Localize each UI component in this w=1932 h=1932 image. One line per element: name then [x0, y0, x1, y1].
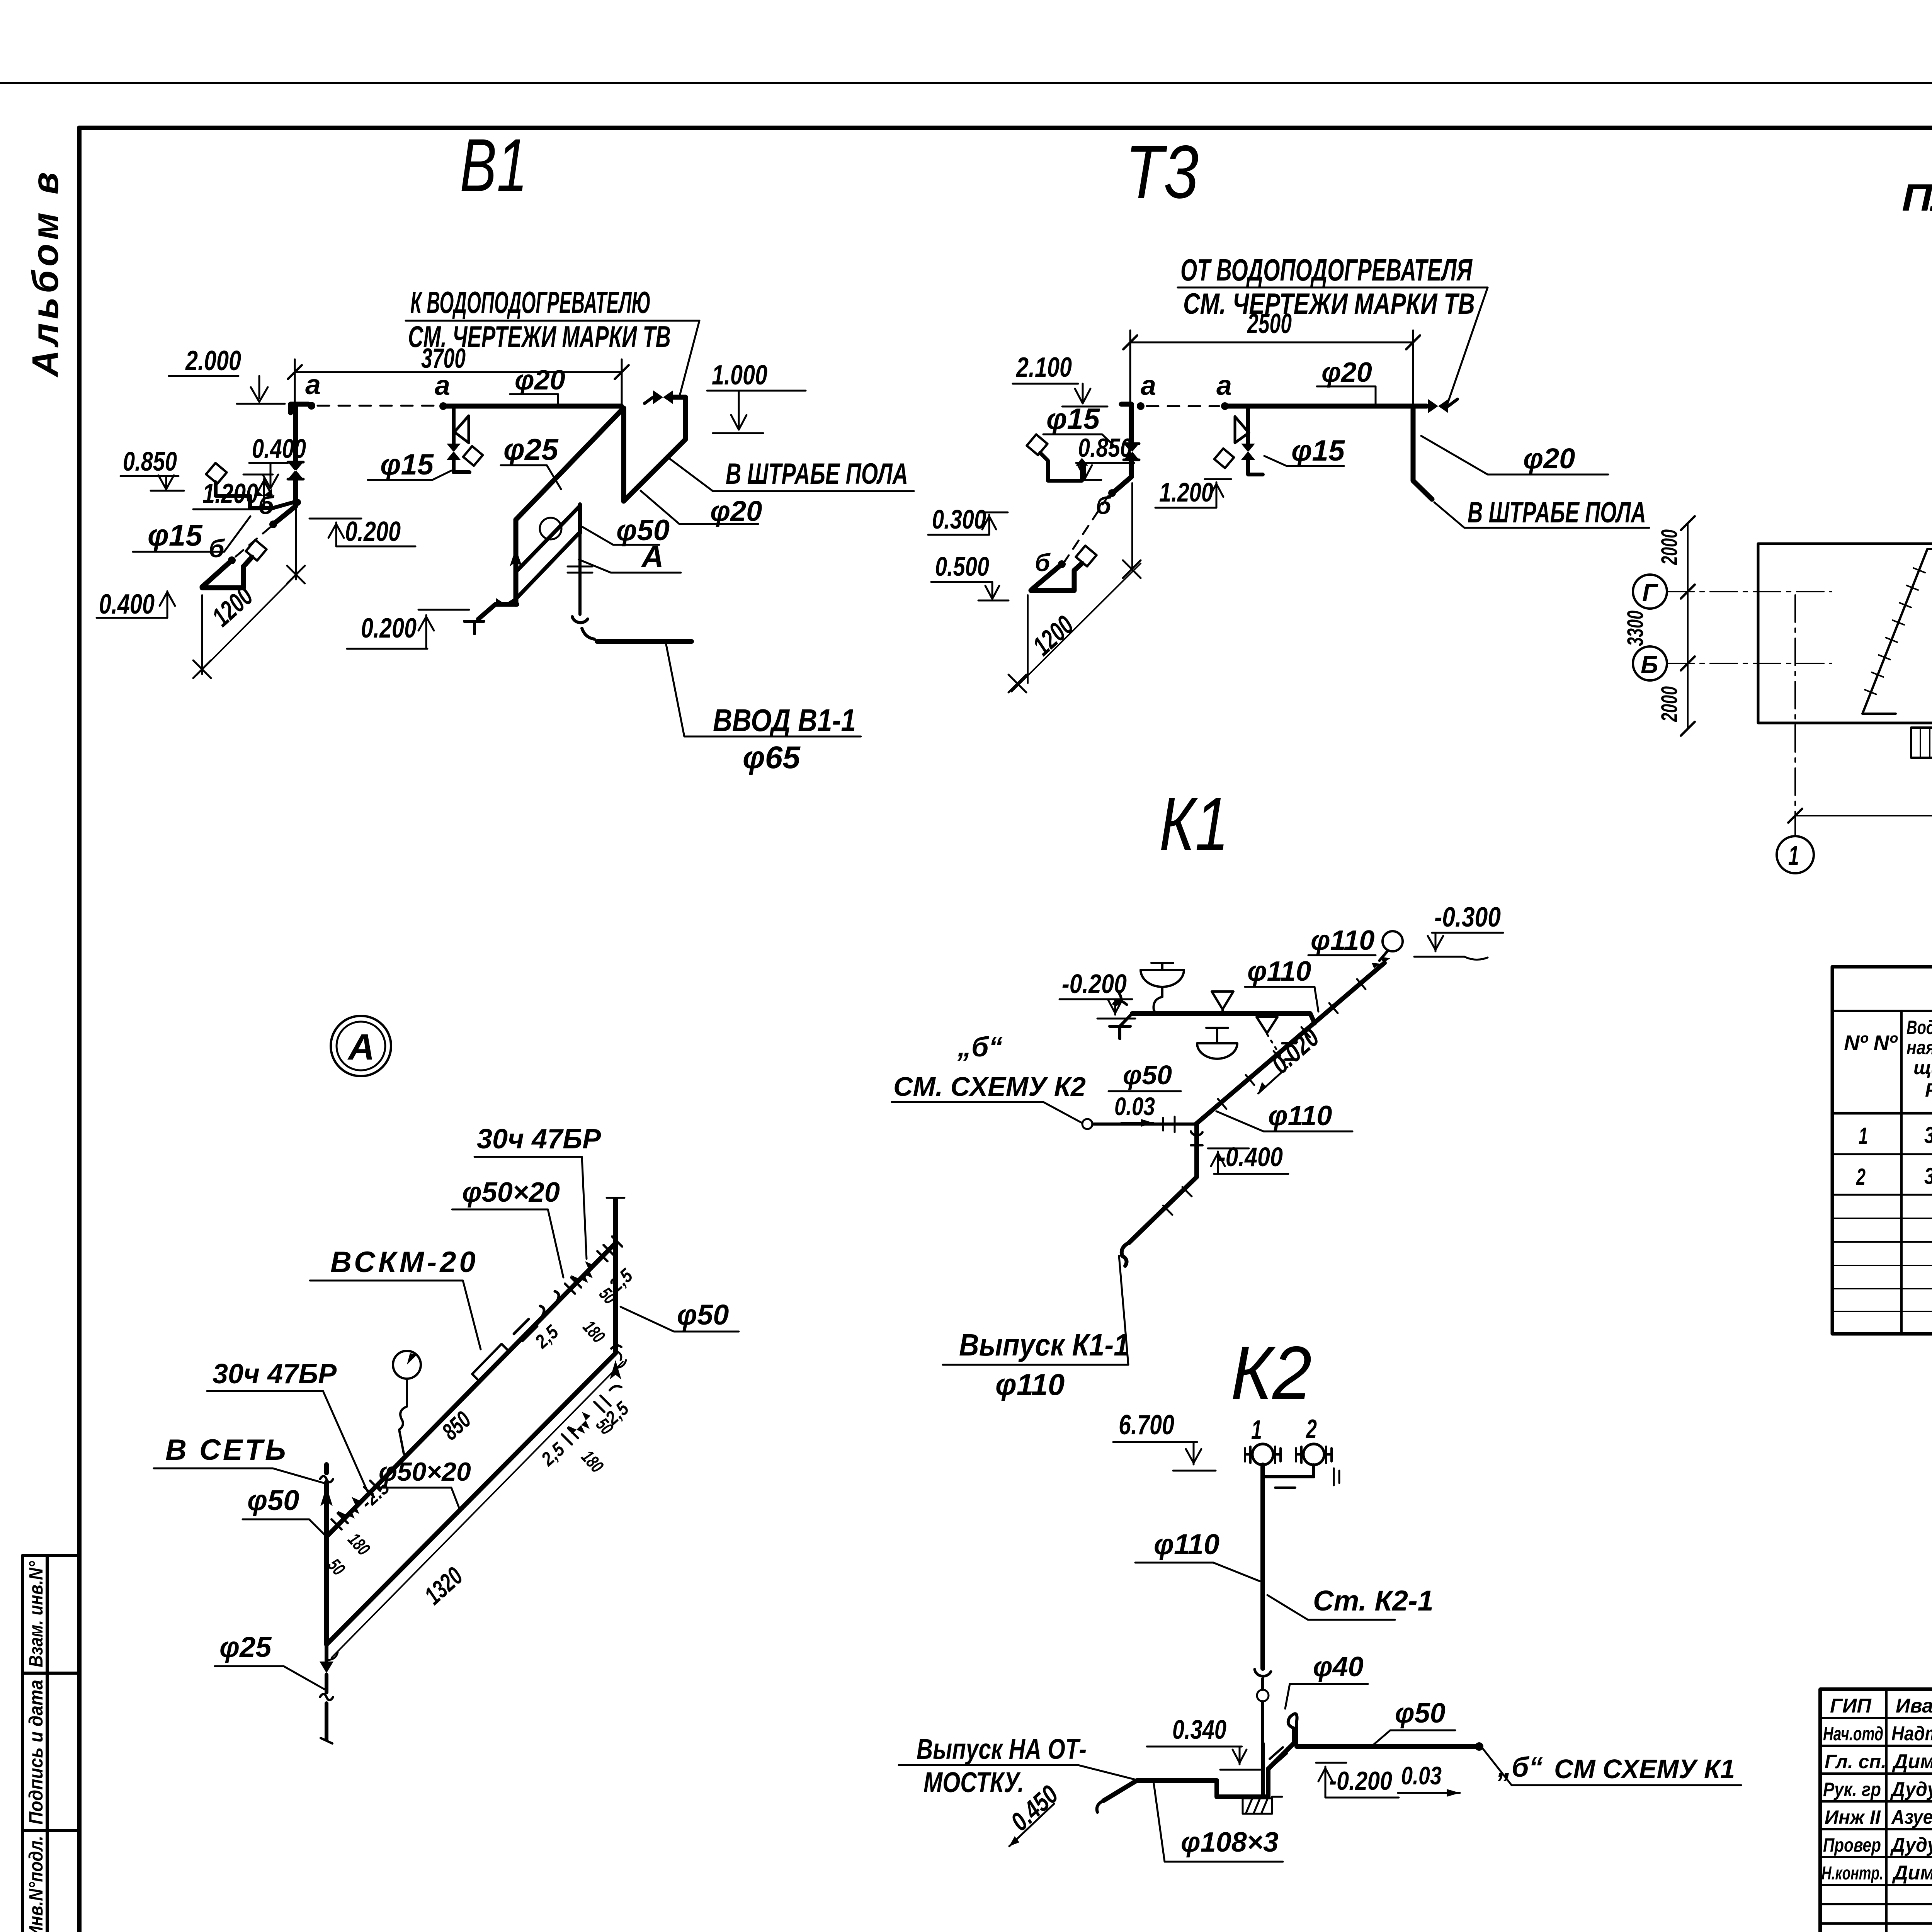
pipe: lower diagonal run: [327, 1353, 616, 1645]
svg-text:б: б: [1096, 492, 1112, 519]
svg-text:СМ СХЕМУ К1: СМ СХЕМУ К1: [1554, 1754, 1735, 1784]
pipe elbow at a: [1121, 402, 1131, 407]
svg-text:Гл. сп.: Гл. сп.: [1825, 1751, 1886, 1772]
svg-text:φ50×20: φ50×20: [462, 1177, 560, 1208]
svg-text:ная пло-: ная пло-: [1906, 1037, 1932, 1058]
svg-text:φ20: φ20: [1321, 357, 1372, 388]
column lines: [1901, 1011, 1932, 1334]
svg-text:Г: Г: [1642, 579, 1658, 607]
svg-text:0.300: 0.300: [932, 504, 986, 534]
svg-text:30ч 47БР: 30ч 47БР: [213, 1359, 337, 1389]
diamond flag lower-left: [246, 540, 267, 561]
svg-text:щадь: щадь: [1913, 1057, 1932, 1078]
dashed pipe between a-a: [318, 405, 437, 407]
stairs block: [1911, 728, 1932, 758]
svg-text:φ15: φ15: [1291, 434, 1345, 467]
svg-text:Выпуск НА ОТ-: Выпуск НА ОТ-: [917, 1733, 1087, 1765]
dashed branch to б lower: [235, 527, 270, 557]
svg-text:Провер: Провер: [1823, 1834, 1881, 1856]
svg-text:„б“: „б“: [957, 1032, 1003, 1063]
pipe: T3 left riser: [1114, 404, 1131, 492]
pipe zigzag lower-left: [202, 557, 252, 588]
bell joint on riser: [1255, 1669, 1271, 1676]
pipe zigzag lower T3: [1031, 563, 1082, 590]
svg-text:φ15: φ15: [1046, 403, 1100, 435]
pipe: main riser to inlet: [514, 520, 519, 604]
pipe: K2 riser: [1260, 1465, 1265, 1668]
svg-text:0.850: 0.850: [123, 446, 177, 476]
svg-text:1.200: 1.200: [1159, 477, 1213, 507]
svg-text:В1: В1: [460, 123, 527, 207]
svg-text:Димаков: Димаков: [1892, 1750, 1932, 1773]
pipe: parallelogram upper diagonal: [516, 506, 580, 572]
pipe: main right line: [1297, 1744, 1477, 1749]
left row lines: [1820, 1718, 1932, 1923]
pipe: outlet horizontal left: [1104, 1781, 1217, 1801]
svg-text:Ст. К2-1: Ст. К2-1: [1313, 1585, 1434, 1617]
svg-text:Рук. гр: Рук. гр: [1823, 1779, 1881, 1800]
valve on left riser: [288, 462, 303, 479]
svg-text:φ50: φ50: [1395, 1698, 1446, 1729]
left columns: [1886, 1689, 1932, 1932]
valve at right end T3: [1428, 399, 1448, 413]
svg-text:Nº Nº: Nº Nº: [1844, 1031, 1898, 1055]
vent at junction: [1191, 1131, 1202, 1145]
diamond flag lower T3: [1076, 546, 1097, 566]
svg-text:Н.контр.: Н.контр.: [1821, 1863, 1883, 1884]
svg-text:ПЛАН КРОВЛИ: ПЛАН КРОВЛИ: [1902, 176, 1932, 219]
svg-text:2: 2: [1856, 1164, 1866, 1190]
left axes Г Б: [1633, 575, 1667, 609]
pipe: Ф50 line to K2: [1093, 1122, 1196, 1126]
pipe: T3 right drop: [1413, 406, 1432, 499]
roof funnel top: [1383, 931, 1403, 951]
svg-text:В ШТРАБЕ ПОЛА: В ШТРАБЕ ПОЛА: [726, 457, 908, 490]
pipe elbow at node a: [291, 404, 308, 413]
table header split: [1832, 1010, 1932, 1012]
detail marker A: [331, 1016, 391, 1076]
main title block frame: [1820, 1689, 1932, 1932]
svg-text:а: а: [1141, 370, 1156, 401]
svg-text:СМ. ЧЕРТЕЖИ МАРКИ ТВ: СМ. ЧЕРТЕЖИ МАРКИ ТВ: [1183, 287, 1475, 320]
pipe: left drop below: [325, 1645, 328, 1740]
svg-text:б: б: [209, 534, 225, 563]
svg-text:а: а: [305, 369, 321, 400]
pipe: left vertical between runs: [324, 1537, 329, 1645]
svg-text:СМ. СХЕМУ К2: СМ. СХЕМУ К2: [893, 1071, 1086, 1102]
svg-text:2.000: 2.000: [185, 345, 241, 376]
svg-text:Подпись и дата: Подпись и дата: [25, 1680, 47, 1825]
node б (upper): [269, 520, 277, 528]
pipe: upper diagonal run: [327, 1243, 616, 1537]
roof drain 2: [1303, 1444, 1324, 1465]
svg-text:Димаков: Димаков: [1892, 1862, 1932, 1884]
valve at heater branch: [653, 390, 673, 404]
roof drain 1: [1252, 1444, 1273, 1465]
connection circle K2: [1082, 1119, 1092, 1129]
svg-text:Инв.N°подл.: Инв.N°подл.: [25, 1836, 47, 1932]
left cluster pipes: [216, 482, 296, 509]
left building outline: [1758, 544, 1932, 723]
svg-text:φ15: φ15: [148, 518, 203, 552]
pipe: K1 main diagonal Ф110: [1196, 963, 1384, 1124]
svg-text:0.03: 0.03: [1401, 1761, 1442, 1790]
svg-text:Надточеи: Надточеи: [1891, 1723, 1932, 1745]
svg-text:МОСТКУ.: МОСТКУ.: [923, 1766, 1024, 1798]
svg-text:Дудукина: Дудукина: [1890, 1778, 1932, 1801]
svg-text:0.500: 0.500: [935, 551, 989, 582]
svg-text:φ108×3: φ108×3: [1181, 1827, 1279, 1858]
unions on upper diagonal: [514, 1319, 537, 1341]
svg-text:6.700: 6.700: [1119, 1410, 1174, 1440]
header row bottom: [1832, 1112, 1932, 1115]
svg-text:φ20: φ20: [710, 495, 762, 527]
pipe: top horizontal run: [443, 404, 621, 409]
diamond flag on center branch: [463, 446, 483, 466]
slope mark left building: [1862, 549, 1932, 714]
leader from note to valve: [680, 321, 699, 394]
svg-text:-0.200: -0.200: [1062, 969, 1127, 999]
outfall hook K2: [1097, 1801, 1104, 1812]
pipe: top horizontal T3: [1225, 404, 1427, 409]
svg-text:2: 2: [1306, 1414, 1317, 1444]
hatched anchor block: [1243, 1798, 1272, 1814]
svg-text:3300: 3300: [1623, 611, 1648, 646]
svg-text:-0.200: -0.200: [1329, 1766, 1392, 1796]
fitting zigzag at riser bottom: [464, 621, 484, 634]
bell hook and inlet elbow: [572, 617, 594, 639]
svg-text:1.200: 1.200: [202, 478, 258, 509]
svg-text:φ25: φ25: [219, 1631, 272, 1663]
svg-text:ВСКМ-20: ВСКМ-20: [330, 1246, 479, 1279]
svg-text:Б: Б: [1641, 651, 1658, 679]
svg-text:ГИП: ГИП: [1830, 1695, 1872, 1717]
svg-text:а: а: [1216, 370, 1232, 401]
pipe: inlet horizontal: [597, 639, 692, 644]
pipe: Z vertical and branch to heater: [624, 397, 685, 501]
pipe: K1 upper horizontal branch: [1132, 1014, 1315, 1023]
valve group on upper diagonal (top): [571, 1261, 594, 1284]
svg-text:0.340: 0.340: [1172, 1714, 1226, 1745]
svg-text:φ40: φ40: [1313, 1651, 1364, 1682]
svg-text:Азуевская: Азуевская: [1891, 1806, 1932, 1828]
funnel symbol mid: [1212, 992, 1233, 1014]
svg-text:Водосбор-: Водосбор-: [1906, 1017, 1932, 1038]
svg-text:2000: 2000: [1657, 529, 1682, 565]
sink symbol 1: [1141, 970, 1184, 987]
center branch T3: [1248, 406, 1263, 474]
pennant flag on center branch: [454, 416, 469, 443]
pipe: top right vertical: [613, 1199, 618, 1353]
trap under riser: [1217, 1769, 1268, 1797]
pipe: parallelogram right side: [578, 504, 582, 533]
outfall hook: [1122, 1243, 1129, 1266]
svg-text:φ50: φ50: [1123, 1060, 1172, 1090]
svg-text:Выпуск К1-1: Выпуск К1-1: [959, 1328, 1129, 1362]
leader from note: [1447, 287, 1488, 405]
svg-text:ОТ ВОДОПОДОГРЕВАТЕЛЯ: ОТ ВОДОПОДОГРЕВАТЕЛЯ: [1180, 253, 1473, 287]
svg-text:К1: К1: [1159, 782, 1229, 866]
dashed to б lower: [1065, 496, 1108, 561]
svg-text:Инж II: Инж II: [1825, 1806, 1881, 1828]
svg-text:φ110: φ110: [1311, 925, 1374, 956]
center branch riser Ф15: [454, 406, 469, 472]
axis 1 drop: [1794, 595, 1796, 836]
svg-text:0.200: 0.200: [361, 613, 417, 644]
svg-text:φ110: φ110: [1154, 1528, 1219, 1560]
node б upper: [1108, 489, 1116, 497]
svg-text:-0.400: -0.400: [1218, 1142, 1283, 1172]
svg-text:1: 1: [1788, 840, 1799, 871]
node б lower: [1058, 560, 1066, 568]
pipe: left riser (to network): [324, 1464, 329, 1537]
svg-text:φ20: φ20: [515, 365, 565, 396]
svg-text:0.200: 0.200: [345, 516, 401, 547]
svg-text:φ50: φ50: [677, 1299, 729, 1331]
svg-text:0.400: 0.400: [99, 589, 155, 620]
svg-text:φ20: φ20: [1523, 442, 1575, 474]
left cluster T3: [1027, 434, 1048, 455]
svg-text:0.03: 0.03: [1114, 1092, 1155, 1121]
phi40 standpipe curl: [1288, 1714, 1297, 1743]
svg-text:0.400: 0.400: [252, 434, 306, 464]
flow arrow bottom right vertical: [610, 1360, 621, 1379]
svg-text:Fм²: Fм²: [1925, 1079, 1932, 1101]
dashed pipe a-a: [1147, 405, 1219, 407]
left cluster valve: [255, 489, 272, 496]
svg-text:1: 1: [1859, 1123, 1868, 1149]
svg-text:30ч 47БР: 30ч 47БР: [477, 1124, 601, 1155]
svg-text:Дудукина: Дудукина: [1890, 1834, 1932, 1856]
svg-text:1: 1: [1251, 1415, 1262, 1445]
svg-text:-0.300: -0.300: [1434, 902, 1501, 933]
water meter ВСКМ symbol: [472, 1344, 509, 1381]
left vertical dim 2000/3300/2000: [1687, 523, 1689, 729]
svg-text:φ50: φ50: [616, 514, 670, 547]
sink symbol 2 (lower): [1197, 1043, 1237, 1059]
branch from drain 2: [1265, 1465, 1314, 1477]
svg-text:2000: 2000: [1657, 686, 1682, 722]
water meter circle: [540, 518, 561, 539]
svg-text:„б“: „б“: [1497, 1752, 1543, 1783]
svg-text:В СЕТЬ: В СЕТЬ: [165, 1434, 288, 1466]
svg-text:36,0: 36,0: [1924, 1122, 1932, 1148]
svg-text:Взам. инв.N°: Взам. инв.N°: [25, 1561, 47, 1667]
pipe: Ф25 long diagonal: [516, 410, 621, 520]
pipe: parallelogram lower diagonal: [516, 532, 580, 599]
svg-text:Альбом в: Альбом в: [25, 168, 66, 378]
svg-text:Иванова: Иванова: [1896, 1695, 1932, 1717]
svg-text:Т3: Т3: [1125, 130, 1199, 214]
svg-text:Нач.отд: Нач.отд: [1823, 1723, 1883, 1745]
svg-text:2.100: 2.100: [1015, 352, 1072, 383]
svg-text:В ШТРАБЕ ПОЛА: В ШТРАБЕ ПОЛА: [1468, 496, 1646, 529]
row lines: [1832, 1154, 1932, 1195]
funnel right with dotted drop: [1257, 1017, 1277, 1033]
svg-text:3700: 3700: [421, 343, 466, 374]
svg-text:К2: К2: [1231, 1331, 1312, 1415]
svg-text:φ25: φ25: [503, 432, 559, 466]
pipe: drop with flange: [578, 533, 582, 614]
svg-text:φ110: φ110: [995, 1367, 1065, 1401]
svg-text:а: а: [435, 370, 450, 401]
svg-text:1.000: 1.000: [712, 360, 767, 391]
svg-text:К ВОДОПОДОГРЕВАТЕЛЮ: К ВОДОПОДОГРЕВАТЕЛЮ: [410, 285, 651, 320]
svg-text:36,0: 36,0: [1924, 1163, 1932, 1189]
flow arrow on riser: [510, 548, 522, 566]
svg-text:φ50: φ50: [247, 1484, 299, 1516]
svg-text:φ110: φ110: [1268, 1100, 1332, 1131]
branch left end fitting: [1110, 1014, 1132, 1039]
svg-text:ВВОД В1-1: ВВОД В1-1: [713, 703, 856, 738]
outer trim border top: [0, 82, 1932, 84]
svg-text:φ110: φ110: [1247, 956, 1311, 987]
left cluster: diamond flag: [206, 463, 227, 484]
valve group on upper diagonal (left): [338, 1497, 360, 1519]
pipe: zigzag to phi40: [1268, 1743, 1294, 1769]
pipe: left riser B1: [275, 406, 296, 523]
gauge manometer: [393, 1351, 421, 1379]
svg-text:2500: 2500: [1247, 308, 1292, 339]
node б (lower): [228, 556, 236, 564]
left margin strip table: [22, 1556, 79, 1932]
svg-text:φ15: φ15: [380, 448, 434, 481]
svg-text:φ65: φ65: [743, 740, 801, 775]
pipe: K1 lower drop: [1129, 1124, 1197, 1243]
svg-text:А: А: [347, 1027, 375, 1068]
rain data table frame: [1832, 967, 1932, 1334]
valve group on lower diagonal (middle): [568, 1412, 590, 1434]
joint ticks on diagonal: [1218, 979, 1366, 1109]
